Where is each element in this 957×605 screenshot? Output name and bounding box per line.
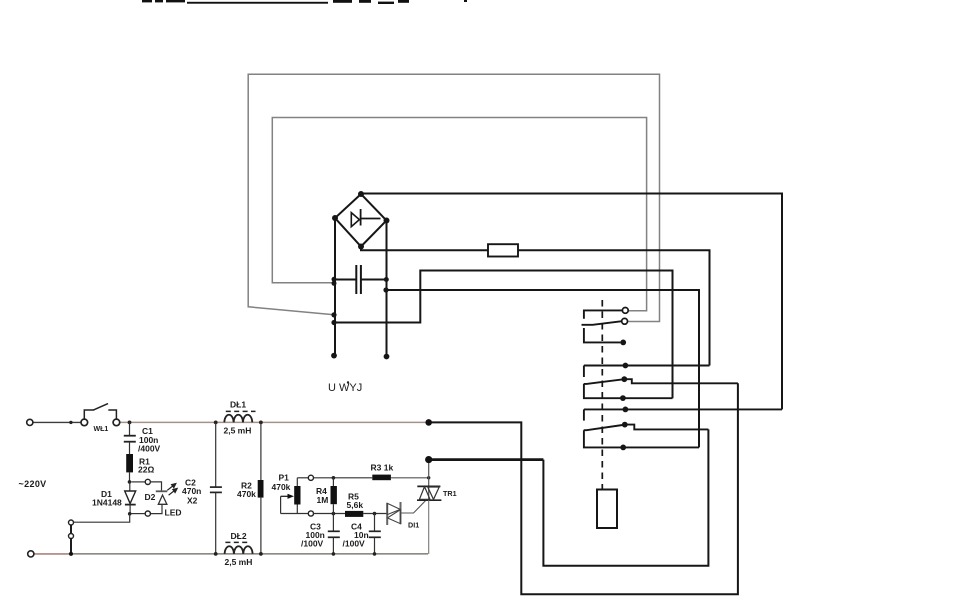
svg-text:X2: X2: [187, 496, 198, 506]
svg-text:WŁ1: WŁ1: [94, 426, 109, 433]
svg-text:P1: P1: [279, 473, 290, 483]
svg-text:U WYJ: U WYJ: [328, 382, 362, 394]
svg-text:/400V: /400V: [138, 444, 161, 454]
svg-text:D2: D2: [145, 492, 156, 502]
svg-text:1N4148: 1N4148: [92, 498, 122, 508]
svg-text:/100V: /100V: [301, 539, 324, 549]
svg-text:/100V: /100V: [343, 539, 366, 549]
svg-text:2,5 mH: 2,5 mH: [225, 557, 253, 567]
svg-text:22Ω: 22Ω: [138, 465, 154, 475]
svg-text:DŁ1: DŁ1: [230, 400, 246, 410]
svg-text:DŁ2: DŁ2: [231, 531, 247, 541]
svg-text:2,5 mH: 2,5 mH: [224, 426, 252, 436]
svg-text:470n: 470n: [182, 486, 201, 496]
svg-text:5,6k: 5,6k: [347, 500, 364, 510]
svg-text:LED: LED: [165, 508, 182, 518]
svg-text:1M: 1M: [317, 495, 329, 505]
svg-text:TR1: TR1: [443, 489, 457, 498]
svg-text:470k: 470k: [237, 489, 256, 499]
svg-text:R3 1k: R3 1k: [371, 463, 394, 473]
svg-text:DI1: DI1: [408, 521, 419, 530]
svg-text:~220V: ~220V: [19, 479, 47, 489]
svg-text:470k: 470k: [272, 482, 291, 492]
